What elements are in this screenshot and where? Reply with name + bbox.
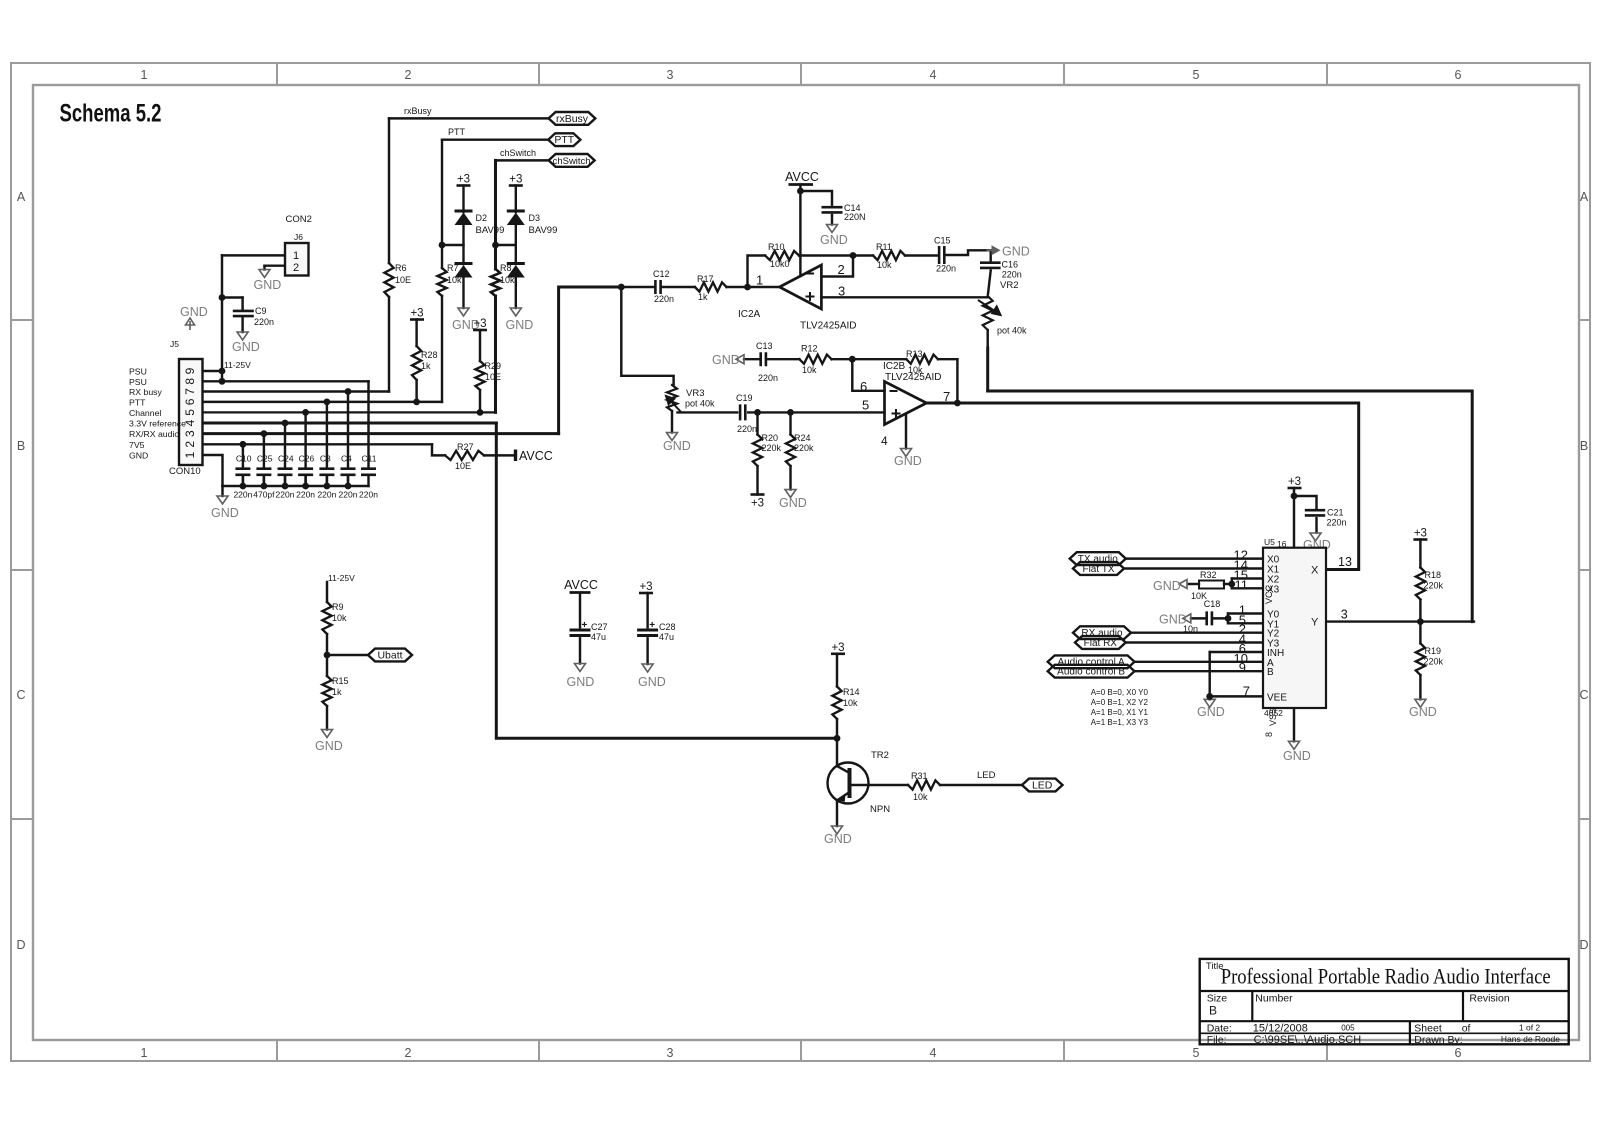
svg-text:2: 2 — [293, 262, 299, 274]
svg-text:C:\99SE\..\Audio.SCH: C:\99SE\..\Audio.SCH — [1254, 1034, 1362, 1046]
svg-text:R20: R20 — [762, 433, 779, 443]
svg-text:1: 1 — [141, 68, 148, 82]
svg-text:R10: R10 — [768, 242, 785, 252]
svg-text:+3: +3 — [457, 174, 470, 186]
svg-text:13: 13 — [1338, 555, 1352, 569]
svg-text:1k: 1k — [698, 292, 708, 302]
svg-text:R27: R27 — [457, 442, 474, 452]
svg-text:10k: 10k — [913, 792, 928, 802]
svg-text:D: D — [16, 938, 25, 952]
svg-text:10k: 10k — [802, 365, 817, 375]
svg-text:R31: R31 — [911, 771, 928, 781]
svg-text:GND: GND — [506, 318, 534, 332]
svg-text:3: 3 — [183, 430, 197, 437]
svg-text:C13: C13 — [756, 341, 773, 351]
svg-text:TLV2425AID: TLV2425AID — [885, 372, 942, 383]
svg-text:2: 2 — [838, 262, 845, 277]
svg-text:GND: GND — [1283, 749, 1311, 763]
svg-text:Hans de Roode: Hans de Roode — [1501, 1034, 1560, 1044]
svg-text:R19: R19 — [1425, 646, 1442, 656]
svg-text:+3: +3 — [751, 498, 764, 510]
svg-text:470pf: 470pf — [253, 490, 275, 500]
svg-text:220k: 220k — [1424, 657, 1444, 667]
svg-text:AVCC: AVCC — [564, 578, 598, 592]
svg-text:220n: 220n — [254, 317, 274, 327]
svg-text:GND: GND — [129, 451, 148, 461]
svg-text:A=1 B=1, X3 Y3: A=1 B=1, X3 Y3 — [1091, 718, 1149, 727]
svg-text:A: A — [17, 190, 26, 204]
svg-text:rxBusy: rxBusy — [404, 106, 432, 116]
svg-text:IC2A: IC2A — [738, 309, 761, 320]
svg-text:5: 5 — [183, 409, 197, 416]
svg-text:pot 40k: pot 40k — [997, 326, 1027, 336]
svg-text:RX busy: RX busy — [129, 387, 162, 397]
svg-text:+3: +3 — [1414, 528, 1427, 540]
svg-text:C3: C3 — [320, 454, 331, 464]
svg-text:5: 5 — [1193, 68, 1200, 82]
svg-text:GND: GND — [779, 496, 807, 510]
svg-text:220N: 220N — [844, 212, 866, 222]
svg-text:A=0 B=0, X0 Y0: A=0 B=0, X0 Y0 — [1091, 688, 1149, 697]
svg-text:C25: C25 — [257, 454, 273, 464]
svg-text:PTT: PTT — [129, 397, 146, 407]
svg-text:GND: GND — [712, 353, 740, 367]
svg-text:A=0 B=1, X2 Y2: A=0 B=1, X2 Y2 — [1091, 698, 1149, 707]
svg-text:PTT: PTT — [554, 134, 574, 146]
svg-text:GND: GND — [180, 305, 208, 319]
svg-text:7: 7 — [943, 389, 950, 404]
svg-text:16: 16 — [1277, 539, 1287, 549]
svg-text:VR2: VR2 — [1000, 280, 1018, 291]
svg-text:220n: 220n — [296, 490, 315, 500]
svg-text:GND: GND — [820, 233, 848, 247]
svg-text:BAV99: BAV99 — [529, 225, 558, 236]
svg-text:220n: 220n — [339, 490, 358, 500]
svg-text:11-25V: 11-25V — [224, 360, 251, 370]
svg-text:GND: GND — [1409, 705, 1437, 719]
svg-text:AVCC: AVCC — [519, 449, 553, 463]
svg-text:AVCC: AVCC — [785, 170, 819, 184]
svg-text:2: 2 — [405, 68, 412, 82]
svg-text:GND: GND — [254, 278, 282, 292]
svg-text:220n: 220n — [654, 294, 674, 304]
svg-text:15/12/2008: 15/12/2008 — [1253, 1023, 1308, 1035]
svg-text:1k: 1k — [332, 687, 342, 697]
svg-text:7V5: 7V5 — [129, 440, 145, 450]
svg-text:R18: R18 — [1425, 570, 1442, 580]
svg-text:GND: GND — [232, 340, 260, 354]
svg-text:GND: GND — [1197, 705, 1225, 719]
svg-text:4: 4 — [881, 434, 888, 448]
svg-text:47u: 47u — [591, 632, 606, 642]
svg-text:220n: 220n — [233, 490, 252, 500]
svg-text:10E: 10E — [395, 275, 411, 285]
svg-text:10k0: 10k0 — [770, 259, 790, 269]
svg-text:220k: 220k — [762, 443, 782, 453]
svg-text:GND: GND — [1002, 245, 1030, 259]
svg-text:3: 3 — [838, 284, 845, 299]
svg-text:C11: C11 — [362, 454, 377, 464]
svg-text:C15: C15 — [934, 236, 951, 246]
svg-text:+3: +3 — [410, 308, 423, 320]
svg-text:D2: D2 — [476, 213, 488, 223]
svg-text:R24: R24 — [794, 433, 811, 443]
svg-text:3: 3 — [1341, 608, 1348, 622]
svg-text:1: 1 — [293, 250, 299, 262]
svg-text:VR3: VR3 — [686, 388, 704, 399]
svg-text:10k: 10k — [877, 260, 892, 270]
svg-text:D: D — [1579, 938, 1588, 952]
svg-text:NPN: NPN — [870, 804, 890, 815]
svg-text:2: 2 — [183, 441, 197, 448]
svg-text:220n: 220n — [758, 373, 778, 383]
svg-text:10E: 10E — [485, 372, 501, 382]
svg-text:pot 40k: pot 40k — [685, 399, 715, 409]
svg-text:4: 4 — [930, 68, 937, 82]
svg-text:220n: 220n — [1002, 270, 1022, 280]
svg-text:R13: R13 — [906, 349, 923, 359]
svg-text:File:: File: — [1207, 1034, 1227, 1046]
svg-text:3: 3 — [667, 68, 674, 82]
svg-text:5: 5 — [862, 398, 869, 413]
svg-text:BAV99: BAV99 — [476, 225, 505, 236]
svg-text:LED: LED — [1032, 779, 1053, 791]
svg-text:11: 11 — [1235, 577, 1249, 592]
svg-text:C9: C9 — [255, 306, 267, 316]
svg-text:C28: C28 — [659, 622, 676, 632]
svg-text:C24: C24 — [278, 454, 294, 464]
svg-text:GND: GND — [1153, 579, 1181, 593]
svg-text:VEE: VEE — [1267, 692, 1287, 703]
svg-text:R28: R28 — [421, 350, 438, 360]
svg-text:Flat TX: Flat TX — [1082, 564, 1114, 575]
svg-text:8: 8 — [183, 378, 197, 385]
svg-text:rxBusy: rxBusy — [556, 113, 589, 125]
svg-text:R12: R12 — [801, 344, 818, 354]
svg-text:VCC: VCC — [1264, 584, 1274, 604]
svg-text:6: 6 — [1455, 68, 1462, 82]
svg-text:+3: +3 — [509, 174, 522, 186]
svg-text:C16: C16 — [1002, 260, 1019, 270]
svg-text:Flat RX: Flat RX — [1084, 638, 1118, 649]
svg-text:3: 3 — [667, 1046, 674, 1060]
svg-text:C4: C4 — [341, 454, 352, 464]
svg-text:10k: 10k — [332, 613, 347, 623]
svg-text:CON10: CON10 — [169, 466, 201, 477]
svg-text:220n: 220n — [737, 424, 757, 434]
svg-text:PTT: PTT — [448, 127, 466, 137]
svg-text:chSwitch: chSwitch — [553, 156, 591, 167]
svg-text:J5: J5 — [170, 339, 179, 349]
svg-text:R11: R11 — [876, 242, 892, 252]
svg-text:TLV2425AID: TLV2425AID — [800, 321, 857, 332]
svg-text:Audio control B: Audio control B — [1057, 667, 1125, 678]
svg-text:R32: R32 — [1200, 570, 1217, 580]
svg-text:GND: GND — [824, 832, 852, 846]
svg-text:220n: 220n — [276, 490, 295, 500]
svg-text:C10: C10 — [236, 454, 252, 464]
svg-text:R6: R6 — [395, 263, 407, 273]
svg-text:7: 7 — [183, 388, 197, 395]
svg-text:C12: C12 — [653, 269, 670, 279]
svg-text:+: + — [649, 620, 655, 631]
svg-text:Channel: Channel — [129, 408, 161, 418]
svg-text:C21: C21 — [1327, 508, 1344, 518]
svg-text:R29: R29 — [485, 361, 502, 371]
svg-text:R9: R9 — [332, 602, 344, 612]
svg-text:Date:: Date: — [1207, 1023, 1232, 1035]
svg-text:8: 8 — [1264, 732, 1274, 737]
svg-text:+: + — [582, 620, 588, 631]
svg-text:47u: 47u — [659, 632, 674, 642]
svg-text:C26: C26 — [299, 454, 315, 464]
svg-text:D3: D3 — [529, 213, 541, 223]
svg-text:C19: C19 — [736, 393, 753, 403]
svg-text:+3: +3 — [473, 318, 486, 330]
svg-text:1k: 1k — [421, 361, 431, 371]
svg-text:3.3V reference: 3.3V reference — [129, 419, 186, 429]
svg-text:220k: 220k — [794, 443, 814, 453]
svg-text:U5: U5 — [1264, 537, 1275, 547]
svg-text:GND: GND — [567, 675, 595, 689]
svg-text:A: A — [1580, 190, 1589, 204]
svg-text:10k: 10k — [843, 698, 858, 708]
svg-text:11-25V: 11-25V — [328, 573, 355, 583]
svg-text:B: B — [1209, 1004, 1217, 1018]
svg-text:C: C — [16, 688, 25, 702]
svg-text:CON2: CON2 — [286, 214, 312, 225]
svg-text:C27: C27 — [591, 622, 608, 632]
svg-text:4: 4 — [930, 1046, 937, 1060]
svg-text:6: 6 — [1455, 1046, 1462, 1060]
svg-text:5: 5 — [1193, 1046, 1200, 1060]
svg-text:LED: LED — [977, 770, 996, 781]
svg-text:B: B — [1580, 439, 1588, 453]
svg-text:A=1 B=0, X1 Y1: A=1 B=0, X1 Y1 — [1091, 708, 1149, 717]
svg-text:Y: Y — [1311, 617, 1319, 629]
svg-text:1: 1 — [756, 273, 763, 288]
svg-text:TR2: TR2 — [871, 750, 889, 761]
svg-text:GND: GND — [894, 454, 922, 468]
svg-text:Ubatt: Ubatt — [377, 649, 402, 661]
svg-text:C: C — [1579, 688, 1588, 702]
svg-text:220k: 220k — [1424, 581, 1444, 591]
svg-text:Schema 5.2: Schema 5.2 — [60, 100, 162, 128]
svg-text:220n: 220n — [1327, 518, 1347, 528]
svg-text:1: 1 — [141, 1046, 148, 1060]
svg-text:J6: J6 — [294, 232, 303, 242]
svg-text:Revision: Revision — [1469, 993, 1509, 1005]
svg-text:005: 005 — [1341, 1024, 1355, 1033]
svg-text:Sheet: Sheet — [1414, 1023, 1442, 1035]
svg-text:220n: 220n — [359, 490, 378, 500]
svg-text:R15: R15 — [332, 676, 349, 686]
svg-text:6: 6 — [183, 398, 197, 405]
svg-text:Professional Portable Radio Au: Professional Portable Radio Audio Interf… — [1221, 964, 1551, 989]
svg-text:+3: +3 — [1288, 476, 1301, 488]
svg-text:B: B — [1267, 667, 1274, 678]
svg-text:9: 9 — [183, 367, 197, 374]
svg-text:RX/RX audio: RX/RX audio — [129, 429, 179, 439]
svg-text:+3: +3 — [639, 581, 652, 593]
svg-text:R17: R17 — [697, 274, 714, 284]
svg-text:7: 7 — [1243, 683, 1250, 698]
svg-text:C18: C18 — [1204, 599, 1221, 609]
svg-text:R14: R14 — [843, 687, 860, 697]
svg-text:B: B — [17, 439, 25, 453]
svg-text:GND: GND — [638, 675, 666, 689]
svg-text:GND: GND — [663, 439, 691, 453]
svg-text:GND: GND — [1159, 613, 1187, 627]
svg-text:220n: 220n — [936, 264, 956, 274]
svg-text:GND: GND — [211, 506, 239, 520]
svg-text:of: of — [1462, 1023, 1471, 1035]
svg-text:1 of 2: 1 of 2 — [1519, 1023, 1541, 1033]
svg-text:4052: 4052 — [1264, 708, 1283, 718]
svg-text:X: X — [1311, 565, 1319, 577]
svg-text:2: 2 — [405, 1046, 412, 1060]
svg-text:10E: 10E — [455, 461, 471, 471]
svg-text:IC2B: IC2B — [883, 361, 906, 372]
svg-text:6: 6 — [860, 379, 867, 394]
svg-text:Drawn By:: Drawn By: — [1414, 1034, 1462, 1046]
svg-text:GND: GND — [315, 739, 343, 753]
svg-text:9: 9 — [1239, 660, 1246, 675]
svg-text:PSU: PSU — [129, 377, 147, 387]
svg-text:+3: +3 — [831, 642, 844, 654]
svg-text:PSU: PSU — [129, 367, 147, 377]
svg-text:Number: Number — [1255, 993, 1293, 1005]
svg-text:chSwitch: chSwitch — [500, 148, 536, 158]
svg-text:220n: 220n — [317, 490, 336, 500]
svg-text:1: 1 — [183, 451, 197, 458]
